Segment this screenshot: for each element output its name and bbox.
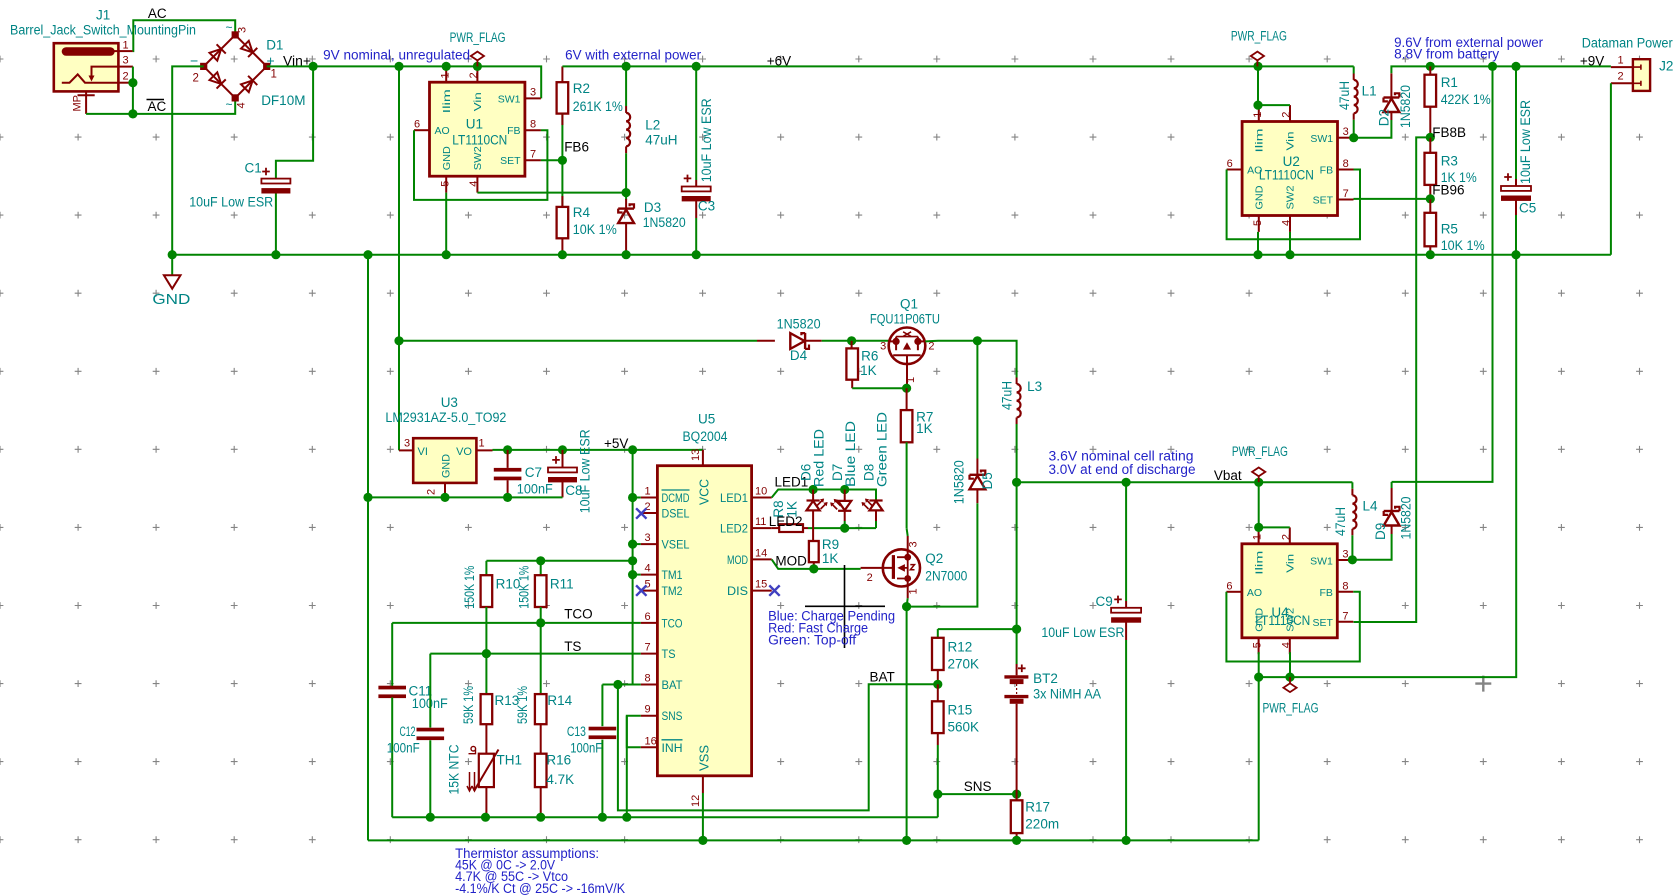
svg-text:R9: R9	[822, 537, 839, 552]
svg-text:100nF: 100nF	[387, 741, 420, 756]
svg-text:5: 5	[439, 181, 451, 187]
svg-text:U5: U5	[698, 412, 715, 427]
svg-text:FQU11P06TU: FQU11P06TU	[870, 312, 940, 327]
svg-text:AO: AO	[1247, 587, 1262, 599]
svg-text:SNS: SNS	[662, 709, 683, 723]
svg-text:BT2: BT2	[1033, 671, 1058, 686]
svg-text:LT1110CN: LT1110CN	[452, 132, 507, 147]
svg-text:11: 11	[755, 516, 766, 528]
svg-text:Dataman Power: Dataman Power	[1582, 36, 1673, 51]
svg-text:1K: 1K	[785, 501, 800, 518]
svg-text:MOD: MOD	[727, 553, 748, 567]
svg-text:L3: L3	[1027, 379, 1042, 394]
svg-text:C1: C1	[245, 160, 262, 175]
svg-text:1N5820: 1N5820	[1398, 85, 1413, 128]
svg-text:TS: TS	[662, 647, 676, 661]
svg-text:10uF Low ESR: 10uF Low ESR	[1041, 625, 1124, 640]
svg-text:1: 1	[1618, 55, 1624, 67]
svg-text:1N5820: 1N5820	[1399, 497, 1414, 540]
svg-text:U1: U1	[466, 116, 483, 131]
svg-text:8: 8	[1343, 158, 1349, 170]
svg-text:Red LED: Red LED	[812, 429, 827, 487]
svg-text:Ilim: Ilim	[1253, 550, 1265, 574]
svg-text:LM2931AZ-5.0_TO92: LM2931AZ-5.0_TO92	[385, 410, 506, 425]
svg-text:R12: R12	[948, 640, 973, 655]
svg-text:3: 3	[1342, 548, 1348, 560]
svg-text:D1: D1	[266, 38, 283, 53]
svg-text:SET: SET	[1312, 617, 1333, 629]
svg-text:Q1: Q1	[900, 297, 918, 312]
svg-text:VI: VI	[418, 446, 428, 458]
svg-text:59K 1%: 59K 1%	[461, 686, 476, 724]
svg-text:Vin: Vin	[472, 92, 484, 111]
svg-text:TH1: TH1	[497, 752, 523, 767]
svg-text:C12: C12	[400, 724, 416, 739]
svg-text:R16: R16	[546, 752, 571, 767]
svg-text:R14: R14	[547, 693, 572, 708]
svg-text:LT1110CN: LT1110CN	[1259, 167, 1314, 182]
svg-text:5: 5	[1252, 220, 1264, 226]
svg-text:R2: R2	[573, 81, 590, 96]
svg-text:R11: R11	[550, 577, 574, 592]
svg-text:Ilim: Ilim	[441, 89, 453, 113]
svg-text:13: 13	[690, 449, 702, 461]
svg-text:4: 4	[236, 102, 248, 108]
svg-text:C7: C7	[525, 465, 542, 480]
svg-text:U3: U3	[441, 395, 458, 410]
svg-text:1: 1	[1252, 534, 1264, 540]
svg-text:+9V: +9V	[1580, 53, 1604, 68]
svg-text:D3: D3	[644, 200, 661, 215]
svg-text:3: 3	[1343, 126, 1349, 138]
svg-text:47uH: 47uH	[1333, 507, 1348, 536]
svg-text:10uF Low ESR: 10uF Low ESR	[578, 429, 593, 513]
svg-text:2: 2	[468, 72, 480, 78]
svg-text:~: ~	[226, 21, 233, 35]
svg-text:3.0V at end of discharge: 3.0V at end of discharge	[1049, 462, 1196, 477]
svg-text:FB8B: FB8B	[1432, 125, 1466, 140]
svg-text:D5: D5	[980, 472, 995, 489]
svg-text:C9: C9	[1096, 594, 1113, 609]
svg-text:3: 3	[237, 27, 249, 33]
svg-text:BQ2004: BQ2004	[683, 429, 728, 444]
svg-text:FB6: FB6	[564, 140, 589, 155]
svg-text:8: 8	[645, 673, 651, 685]
svg-text:1K: 1K	[860, 363, 877, 378]
svg-text:1: 1	[645, 486, 651, 498]
svg-text:+5V: +5V	[604, 436, 628, 451]
svg-text:SW2: SW2	[472, 146, 484, 170]
svg-text:DIS: DIS	[727, 584, 748, 598]
svg-text:10uF Low ESR: 10uF Low ESR	[699, 98, 714, 182]
svg-text:FB: FB	[1320, 165, 1333, 177]
svg-text:8: 8	[530, 119, 536, 131]
svg-text:14: 14	[755, 547, 767, 559]
svg-text:7: 7	[1343, 188, 1349, 200]
svg-text:PWR_FLAG: PWR_FLAG	[1231, 29, 1287, 44]
svg-text:PWR_FLAG: PWR_FLAG	[450, 30, 506, 45]
svg-text:GND: GND	[441, 146, 453, 170]
svg-text:PWR_FLAG: PWR_FLAG	[1263, 700, 1319, 715]
svg-text:R5: R5	[1441, 221, 1458, 236]
svg-text:R6: R6	[861, 349, 878, 364]
svg-text:15K NTC: 15K NTC	[447, 744, 462, 794]
svg-text:4: 4	[468, 181, 480, 187]
svg-text:D9: D9	[1373, 523, 1388, 540]
svg-text:1N5820: 1N5820	[777, 317, 821, 332]
svg-text:2: 2	[867, 572, 873, 584]
svg-text:8: 8	[1342, 580, 1348, 592]
svg-text:Ilim: Ilim	[1254, 128, 1266, 152]
svg-text:J2: J2	[1659, 59, 1673, 74]
svg-text:2: 2	[1618, 71, 1624, 83]
svg-text:SW1: SW1	[1310, 133, 1333, 145]
svg-text:3: 3	[404, 438, 410, 450]
svg-text:3x NiMH AA: 3x NiMH AA	[1033, 687, 1101, 702]
svg-text:TCO: TCO	[564, 607, 593, 622]
svg-text:47uH: 47uH	[1337, 81, 1352, 110]
svg-text:~: ~	[226, 98, 233, 112]
svg-text:C3: C3	[698, 199, 715, 214]
svg-text:DF10M: DF10M	[261, 93, 305, 108]
svg-text:10K 1%: 10K 1%	[1441, 238, 1485, 253]
svg-text:DSEL: DSEL	[662, 507, 690, 521]
svg-text:9V nominal, unregulated: 9V nominal, unregulated	[323, 48, 470, 63]
svg-text:GND: GND	[1254, 185, 1266, 209]
svg-text:10uF Low ESR: 10uF Low ESR	[189, 195, 273, 210]
svg-text:Barrel_Jack_Switch_MountingPin: Barrel_Jack_Switch_MountingPin	[10, 23, 196, 38]
svg-text:SW1: SW1	[1310, 555, 1333, 567]
svg-text:1K: 1K	[822, 551, 839, 566]
svg-text:8.8V from battery: 8.8V from battery	[1394, 47, 1499, 62]
svg-text:7: 7	[1342, 610, 1348, 622]
svg-text:1: 1	[479, 438, 485, 450]
svg-text:R3: R3	[1441, 154, 1458, 169]
svg-text:FB: FB	[1319, 587, 1332, 599]
svg-text:R4: R4	[573, 205, 591, 220]
svg-text:TM1: TM1	[662, 568, 683, 582]
svg-text:2: 2	[645, 501, 651, 513]
svg-text:9: 9	[645, 704, 651, 716]
svg-text:-4.1%/K Ct @ 25C -> -16mV/K: -4.1%/K Ct @ 25C -> -16mV/K	[455, 881, 625, 896]
svg-text:R15: R15	[948, 703, 973, 718]
svg-text:MOD: MOD	[775, 553, 807, 568]
svg-text:3: 3	[123, 55, 129, 67]
svg-text:2: 2	[1281, 112, 1293, 118]
svg-text:AC: AC	[148, 6, 167, 21]
svg-text:+6V: +6V	[767, 53, 791, 68]
svg-text:6V with external power: 6V with external power	[565, 48, 701, 63]
svg-text:LED2: LED2	[720, 522, 748, 536]
svg-text:3: 3	[908, 541, 920, 547]
svg-text:TCO: TCO	[662, 616, 683, 630]
svg-text:100nF: 100nF	[517, 482, 553, 497]
svg-text:220m: 220m	[1025, 816, 1059, 831]
svg-text:6: 6	[1226, 580, 1232, 592]
svg-text:1: 1	[123, 39, 129, 51]
svg-text:FB96: FB96	[1432, 183, 1464, 198]
svg-text:TM2: TM2	[662, 584, 683, 598]
svg-text:1: 1	[439, 72, 451, 78]
svg-text:422K 1%: 422K 1%	[1441, 92, 1491, 107]
svg-text:VSS: VSS	[698, 745, 712, 771]
svg-text:Blue LED: Blue LED	[843, 421, 858, 487]
svg-text:1: 1	[271, 69, 277, 81]
svg-text:16: 16	[645, 735, 657, 747]
svg-text:150K 1%: 150K 1%	[462, 566, 477, 609]
svg-text:LT1110CN: LT1110CN	[1255, 613, 1310, 628]
svg-text:7: 7	[645, 642, 651, 654]
svg-text:Q2: Q2	[925, 551, 943, 566]
svg-text:1K: 1K	[916, 421, 933, 436]
svg-text:2N7000: 2N7000	[925, 568, 967, 583]
svg-text:SET: SET	[500, 155, 521, 167]
svg-text:INH: INH	[662, 741, 683, 755]
svg-text:2: 2	[123, 71, 129, 83]
svg-text:C13: C13	[567, 724, 586, 739]
svg-text:4: 4	[1281, 220, 1293, 226]
svg-text:VSEL: VSEL	[662, 538, 690, 552]
svg-text:261K 1%: 261K 1%	[573, 99, 623, 114]
svg-text:AO: AO	[435, 125, 450, 137]
svg-text:6: 6	[645, 611, 651, 623]
svg-text:10: 10	[755, 486, 767, 498]
svg-text:C5: C5	[1519, 200, 1536, 215]
svg-text:Green LED: Green LED	[875, 412, 890, 487]
svg-text:10K 1%: 10K 1%	[573, 222, 617, 237]
svg-text:D4: D4	[790, 348, 808, 363]
svg-text:10uF Low ESR: 10uF Low ESR	[1518, 100, 1533, 184]
svg-text:FB: FB	[507, 125, 520, 137]
svg-text:R1: R1	[1441, 75, 1458, 90]
svg-text:4: 4	[1280, 642, 1292, 648]
svg-text:270K: 270K	[948, 657, 980, 672]
svg-text:1: 1	[1252, 112, 1264, 118]
svg-text:7: 7	[530, 149, 536, 161]
svg-text:2: 2	[1280, 534, 1292, 540]
svg-text:SNS: SNS	[964, 779, 992, 794]
svg-text:L1: L1	[1362, 84, 1377, 99]
svg-text:1: 1	[905, 377, 917, 383]
svg-text:Vin: Vin	[1284, 554, 1296, 573]
svg-text:3: 3	[530, 87, 536, 99]
svg-text:6: 6	[1227, 158, 1233, 170]
svg-text:L2: L2	[645, 118, 660, 133]
svg-text:3: 3	[645, 532, 651, 544]
svg-text:BAT: BAT	[662, 678, 683, 692]
svg-text:47uH: 47uH	[645, 132, 677, 147]
svg-text:6: 6	[414, 119, 420, 131]
svg-text:5: 5	[1252, 642, 1264, 648]
svg-text:560K: 560K	[948, 720, 980, 735]
svg-text:4: 4	[645, 563, 651, 575]
svg-text:1N5820: 1N5820	[952, 460, 967, 504]
svg-text:SW1: SW1	[498, 94, 521, 106]
svg-text:PWR_FLAG: PWR_FLAG	[1232, 444, 1288, 459]
svg-text:4.7K: 4.7K	[546, 772, 574, 787]
svg-text:SW2: SW2	[1285, 185, 1297, 209]
svg-text:R17: R17	[1025, 799, 1050, 814]
svg-text:47uH: 47uH	[1000, 381, 1015, 410]
svg-text:LED1: LED1	[720, 491, 748, 505]
svg-text:15: 15	[755, 579, 767, 591]
svg-text:1: 1	[908, 588, 920, 594]
svg-text:AC: AC	[148, 99, 167, 114]
svg-text:J1: J1	[96, 8, 110, 23]
svg-text:1N5820: 1N5820	[643, 215, 686, 230]
svg-text:TS: TS	[564, 639, 581, 654]
svg-text:2: 2	[193, 73, 199, 85]
svg-text:2: 2	[426, 489, 438, 495]
svg-text:Vbat: Vbat	[1214, 468, 1242, 483]
svg-text:Vin+: Vin+	[283, 53, 311, 68]
svg-text:SET: SET	[1313, 195, 1334, 207]
svg-text:12: 12	[690, 795, 702, 807]
svg-text:L4: L4	[1363, 498, 1379, 513]
svg-text:59K 1%: 59K 1%	[515, 686, 530, 724]
svg-text:3: 3	[880, 340, 886, 352]
svg-text:GND: GND	[152, 292, 190, 308]
svg-text:Green: Top-off: Green: Top-off	[768, 633, 856, 648]
svg-text:VCC: VCC	[698, 479, 712, 505]
svg-text:D2: D2	[1377, 109, 1392, 126]
svg-text:150K 1%: 150K 1%	[516, 566, 531, 609]
svg-text:5: 5	[645, 579, 651, 591]
svg-text:VO: VO	[456, 446, 472, 458]
svg-text:100nF: 100nF	[570, 741, 602, 756]
svg-text:BAT: BAT	[870, 670, 895, 685]
svg-text:DCMD: DCMD	[662, 491, 690, 505]
svg-text:GND: GND	[441, 454, 453, 478]
svg-text:MP: MP	[72, 95, 84, 112]
svg-text:Vin: Vin	[1285, 131, 1297, 150]
